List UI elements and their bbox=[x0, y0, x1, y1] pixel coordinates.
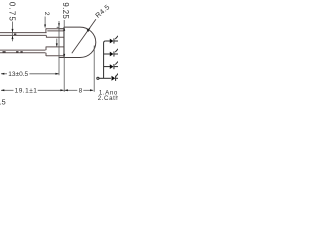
svg-text:2: 2 bbox=[43, 12, 50, 16]
dimension 13±0.5 bbox=[1, 73, 59, 75]
dimension 0.75 (lead thickness) bbox=[12, 22, 14, 42]
lead 1 flange stub bbox=[57, 26, 60, 28]
lead 1 crimp dash bbox=[14, 34, 16, 35]
lead 1 wide section bbox=[46, 28, 64, 37]
schematic: common terminal circle bbox=[97, 77, 99, 79]
svg-text:8: 8 bbox=[79, 87, 83, 94]
lead 1 (top lead thin section) bbox=[0, 33, 47, 36]
lead 2 wide section bbox=[46, 47, 64, 57]
schematic: bus wire bbox=[104, 41, 106, 78]
dimension arrow at lower lead wide top bbox=[56, 39, 58, 47]
svg-text:9.25: 9.25 bbox=[61, 2, 70, 19]
diode D1 bbox=[110, 36, 119, 44]
diode D3 bbox=[110, 61, 119, 69]
radius leader R4.5 bbox=[72, 19, 96, 53]
lead 2 crimp dashes bbox=[3, 51, 6, 52]
svg-text:2.Cathode: 2.Cathode bbox=[98, 95, 118, 102]
schematic: common wire bbox=[99, 77, 111, 79]
lead 2 (bottom lead thin section) bbox=[0, 50, 46, 53]
svg-text:19.1±1: 19.1±1 bbox=[15, 88, 38, 95]
svg-text:.5: .5 bbox=[0, 97, 6, 106]
diode D2 bbox=[110, 49, 119, 57]
extension line for 13 dim bbox=[58, 21, 60, 75]
dimension 8 (body length) bbox=[65, 89, 94, 91]
LED body outline (flange + cylinder + dome, side view) bbox=[59, 27, 96, 57]
svg-text:13±0.5: 13±0.5 bbox=[8, 71, 28, 78]
diode D4 bbox=[112, 73, 119, 81]
dimension 19.1±1 bbox=[1, 89, 64, 91]
schematic: branch wires bbox=[104, 41, 111, 67]
extension line at dome tip bbox=[93, 46, 95, 92]
svg-text:0.75: 0.75 bbox=[8, 2, 17, 22]
dimension 9.25 (body diameter) bbox=[63, 20, 65, 92]
dimension 2 (wide lead width) bbox=[44, 17, 46, 28]
